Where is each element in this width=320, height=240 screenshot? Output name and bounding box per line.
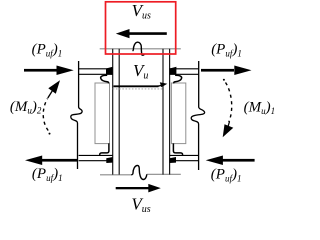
svg-text:(Mu)1: (Mu)1 [244, 99, 276, 116]
